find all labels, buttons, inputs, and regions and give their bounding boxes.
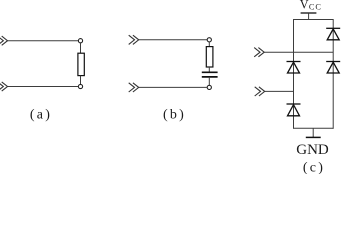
wire top rail xyxy=(294,19,334,21)
node terminal (b) top xyxy=(207,38,211,42)
connector chevron input 1 xyxy=(254,48,264,57)
ground GND bar xyxy=(306,136,321,138)
diode D1 triangle xyxy=(327,29,339,40)
svg-text:(c): (c) xyxy=(303,160,325,174)
svg-text:(b): (b) xyxy=(163,108,186,123)
wire input 1 xyxy=(264,51,333,53)
connector chevron input (b) bottom xyxy=(129,83,139,92)
node terminal (a) bottom xyxy=(78,84,82,88)
wire (a) bottom xyxy=(8,86,79,88)
svg-text:(a): (a) xyxy=(30,108,52,123)
capacitor C (b) top plate xyxy=(202,71,218,73)
wire (b) capacitor to node xyxy=(208,78,210,86)
diode D3 cathode bar xyxy=(287,61,301,63)
diode D3 triangle xyxy=(288,62,300,73)
wire bottom rail xyxy=(294,127,334,129)
wire (a) top xyxy=(8,40,79,42)
connector chevron input (a) top xyxy=(0,36,8,45)
node terminal (b) bottom xyxy=(207,85,211,89)
wire (b) top xyxy=(139,39,208,41)
capacitor C (b) bottom plate xyxy=(202,76,218,78)
svg-text:GND: GND xyxy=(296,142,329,158)
wire left branch vertical xyxy=(293,19,295,129)
svg-text:VCC: VCC xyxy=(300,0,322,12)
connector chevron input (b) top xyxy=(129,35,139,44)
resistor R (a) xyxy=(78,53,84,75)
wire (a) resistor to node xyxy=(80,76,82,85)
wire GND stub xyxy=(312,128,314,137)
wire right branch vertical xyxy=(332,19,334,129)
diode D4 triangle xyxy=(288,105,300,116)
connector chevron input (a) bottom xyxy=(0,82,8,91)
node terminal (a) top xyxy=(78,39,82,43)
power VCC rail bar xyxy=(301,12,317,14)
wire input 2 xyxy=(265,90,294,92)
diode D2 cathode bar xyxy=(326,61,340,63)
wire (b) resistor to capacitor xyxy=(208,67,210,72)
resistor R (b) xyxy=(206,47,213,67)
wire (b) bottom xyxy=(139,86,208,88)
connector chevron input 2 xyxy=(255,87,265,96)
diode D1 cathode bar xyxy=(326,27,340,29)
diode D4 cathode bar xyxy=(287,103,301,105)
diode D2 triangle xyxy=(327,62,339,73)
wire VCC stub xyxy=(308,13,310,19)
wire (a) node to resistor xyxy=(80,43,82,53)
wire (b) node to resistor xyxy=(208,42,210,47)
